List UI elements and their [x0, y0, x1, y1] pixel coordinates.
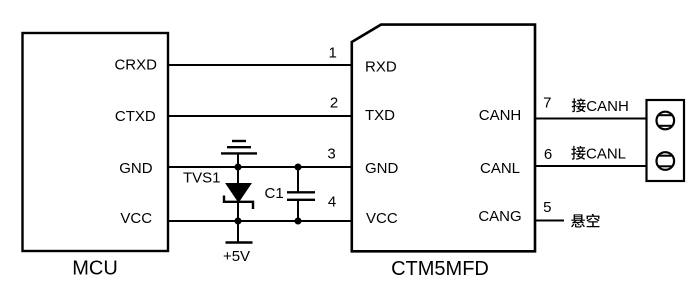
svg-text:RXD: RXD [365, 58, 397, 75]
pin number 3 [327, 146, 335, 163]
wire TVS cathode stem [237, 202, 239, 221]
wire CANG stub [535, 220, 564, 222]
svg-text:CTM5MFD: CTM5MFD [391, 258, 489, 280]
pin number 1 [329, 45, 337, 62]
TVS1 value label [183, 170, 221, 187]
svg-text:TXD: TXD [365, 107, 395, 124]
svg-text:VCC: VCC [366, 210, 398, 227]
node label 接CANL [571, 146, 626, 163]
CTM5MFD pin CANG [478, 208, 521, 225]
wire TVS anode stem [237, 167, 239, 185]
ground [221, 141, 257, 167]
svg-text:1: 1 [329, 45, 337, 62]
connector J1 terminal block body [647, 100, 685, 181]
pin number 7 [543, 95, 551, 112]
svg-text:CANG: CANG [478, 208, 521, 225]
pin number 6 [544, 146, 552, 163]
node label 悬空 [571, 214, 600, 228]
svg-text:TVS1: TVS1 [183, 170, 221, 187]
svg-text:2: 2 [330, 95, 338, 112]
CTM5MFD label [391, 258, 489, 280]
svg-text:MCU: MCU [72, 258, 118, 280]
CTM5MFD pin GND [365, 160, 399, 177]
node junction dot GND-C1 [295, 164, 302, 171]
C1 value label [265, 185, 284, 202]
wire VCC to VCC [168, 220, 352, 222]
svg-text:7: 7 [543, 95, 551, 112]
node junction dot VCC-TVS [235, 218, 242, 225]
svg-text:GND: GND [119, 160, 153, 177]
wire CANL to connector [535, 165, 647, 167]
CTM5MFD pin RXD [365, 58, 397, 75]
svg-text:3: 3 [327, 146, 335, 163]
MCU box [23, 33, 169, 251]
IC U1 CTM5MFD transceiver box [352, 25, 535, 252]
pin number 5 [543, 199, 551, 216]
svg-text:CANL: CANL [480, 160, 520, 177]
svg-text:C1: C1 [265, 185, 284, 202]
pin number 2 [330, 95, 338, 112]
svg-text:CANH: CANH [479, 107, 522, 124]
node junction dot VCC-C1 [295, 218, 302, 225]
MCU pin VCC [120, 210, 152, 227]
CTM5MFD pin TXD [365, 107, 395, 124]
+5V power rail [226, 241, 253, 244]
svg-text:CANH: CANH [586, 98, 629, 115]
svg-text:GND: GND [365, 160, 399, 177]
svg-text:4: 4 [328, 194, 336, 211]
MCU pin CTXD [115, 108, 156, 125]
svg-text:6: 6 [544, 146, 552, 163]
CTM5MFD pin CANH [479, 107, 522, 124]
node label 接CANH [572, 98, 629, 115]
wire +5V stem [237, 221, 239, 243]
svg-text:VCC: VCC [120, 210, 152, 227]
pin number 4 [328, 194, 336, 211]
wire C1 top stem [297, 167, 299, 192]
MCU label [72, 258, 118, 280]
diode TVS1 [224, 184, 253, 210]
wire CTXD to TXD [168, 115, 352, 117]
connector screw terminal 2 [657, 152, 675, 170]
svg-text:CTXD: CTXD [115, 108, 156, 125]
wire C1 bottom stem [297, 200, 299, 221]
CTM5MFD pin VCC [366, 210, 398, 227]
svg-text:+5V: +5V [223, 248, 250, 265]
wire GND to GND [168, 166, 352, 168]
MCU pin CRXD [114, 57, 157, 74]
wire CRXD to RXD [168, 64, 352, 66]
connector screw terminal 1 [657, 112, 675, 130]
capacitor C1 [287, 192, 315, 200]
CTM5MFD pin CANL [480, 160, 520, 177]
svg-text:5: 5 [543, 199, 551, 216]
svg-text:CANL: CANL [586, 146, 626, 163]
svg-text:CRXD: CRXD [114, 57, 157, 74]
MCU pin GND [119, 160, 153, 177]
+5V label [223, 248, 250, 265]
wire CANH to connector [535, 118, 647, 120]
node junction dot GND-TVS [235, 164, 242, 171]
